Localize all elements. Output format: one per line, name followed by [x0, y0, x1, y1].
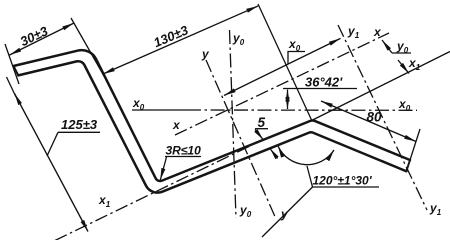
dimension 125±3 line with arrows	[15, 94, 89, 232]
underline 120°	[313, 186, 380, 188]
label 3R<=10 text	[166, 144, 202, 158]
angle arc 120° with arrows	[278, 146, 334, 165]
dimension 80 text	[367, 110, 383, 125]
svg-text:80: 80	[367, 110, 383, 125]
label y0 top	[232, 31, 245, 47]
svg-text:y0: y0	[396, 39, 409, 55]
dimension 130±3 text	[151, 22, 191, 50]
thickness arrows 5	[255, 130, 278, 159]
label x0 left	[132, 96, 145, 112]
angle 36°42' text	[305, 75, 343, 90]
axis x0 horizontal dash-dot	[187, 109, 417, 111]
dimension 125±3 text	[61, 117, 98, 132]
svg-text:120°±1°30': 120°±1°30'	[313, 174, 373, 188]
extension line from right end face	[410, 129, 420, 160]
axis y1 dash-dot	[338, 25, 427, 210]
label x0 inclined with bent leader	[288, 37, 305, 65]
leader from arc to 120° text	[262, 166, 313, 237]
label x1 bottom-left	[98, 193, 111, 209]
extension line left of 30±3	[5, 44, 19, 84]
svg-text:x: x	[373, 25, 382, 39]
label x0 right	[398, 97, 411, 113]
svg-text:x: x	[172, 118, 181, 132]
dimension 80 line with arrows	[321, 101, 416, 142]
svg-text:5: 5	[258, 115, 266, 130]
label y0 top-right	[396, 39, 409, 55]
label y top	[201, 47, 210, 61]
underline 125±3	[58, 131, 100, 133]
svg-text:y1: y1	[429, 201, 442, 217]
dimension 30±3 line with arrows	[10, 23, 75, 55]
strip inner edge	[18, 61, 406, 192]
svg-text:y0: y0	[239, 203, 252, 219]
leader 125±3	[47, 132, 58, 156]
label y1 bottom-right	[429, 201, 442, 217]
svg-text:3R≤10: 3R≤10	[166, 144, 202, 158]
svg-text:125±3: 125±3	[61, 117, 98, 132]
dimension 30±3 text	[18, 23, 51, 49]
axis x0 horizontal solid segment	[132, 109, 187, 111]
axis y0 vertical dash-dot	[230, 30, 237, 218]
svg-text:x0: x0	[398, 97, 411, 113]
svg-text:36°42': 36°42'	[305, 75, 343, 90]
svg-text:x0: x0	[132, 96, 145, 112]
svg-text:y0: y0	[232, 31, 245, 47]
label y1 top	[347, 24, 360, 40]
vertical double arrow between 36°42' line and x0 axis	[287, 90, 289, 110]
extension line above 125±3	[7, 77, 17, 97]
dimension 120°±1°30' text	[313, 174, 373, 188]
extension line steep from peak vertex	[258, 4, 312, 121]
strip right end face	[406, 160, 410, 171]
strip outer edge	[14, 50, 411, 181]
axis y rotated dash-dot	[206, 60, 275, 216]
label y0 bottom	[239, 203, 252, 219]
line from peak vertex up-right (x1 of peak system)	[313, 52, 450, 121]
svg-text:130±3: 130±3	[151, 22, 191, 50]
underline 5	[255, 128, 268, 130]
svg-text:x0: x0	[288, 37, 301, 53]
leader arrow 3R<=10	[160, 157, 166, 180]
dimension 5 text	[258, 115, 266, 130]
underline 3R<=10	[165, 156, 201, 158]
axis x rotated dash-dot	[175, 33, 389, 135]
label x bottom-left	[172, 118, 181, 132]
svg-text:y1: y1	[347, 24, 360, 40]
label x top-right	[373, 25, 382, 39]
svg-text:y: y	[201, 47, 210, 61]
label y bottom	[280, 207, 289, 221]
underline 36°42'	[283, 88, 357, 90]
bracket y0/x1 labels top right	[382, 40, 411, 74]
svg-text:x1: x1	[98, 193, 111, 209]
svg-text:30±3: 30±3	[18, 23, 51, 49]
strip left end face	[14, 66, 19, 75]
extension line through first corner	[71, 18, 108, 83]
inclined x0 line with double arrows	[224, 38, 341, 95]
dimension 130±3 line with arrows	[103, 6, 258, 74]
label x1 top-right	[408, 56, 421, 72]
svg-text:x1: x1	[408, 56, 421, 72]
axis x1 dash-dot	[55, 146, 250, 240]
